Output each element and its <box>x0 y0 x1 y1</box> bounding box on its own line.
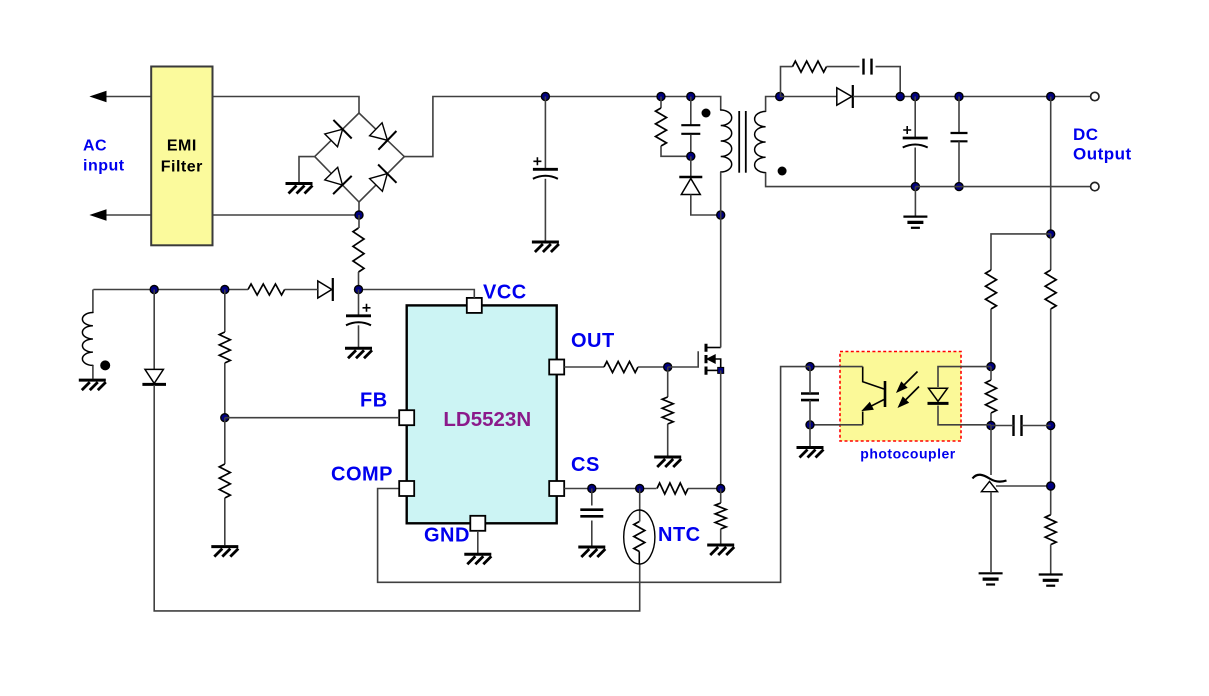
wire bottom rail to terminal <box>915 186 1090 188</box>
wire divider lower <box>224 418 226 464</box>
wire gate pulldown top <box>667 367 669 397</box>
junction snubber R top <box>657 93 665 101</box>
svg-text:VCC: VCC <box>483 282 527 304</box>
wire FB node to pin <box>225 417 399 419</box>
capacitor C3 (output snubber) <box>864 59 872 75</box>
pin FB <box>399 410 414 425</box>
MOSFET Q1 <box>706 344 721 375</box>
wire EMI to bridge bottom node <box>213 214 360 216</box>
wire aux top <box>92 290 94 313</box>
IC U1 LD5523N body <box>407 305 557 523</box>
polarity dot aux <box>100 360 110 370</box>
ground CS cap <box>578 547 605 557</box>
resistor R9 (FB upper) <box>219 332 230 363</box>
junction NTC top <box>636 485 644 493</box>
junction comp bottom <box>806 421 814 429</box>
photocoupler LED <box>928 388 949 403</box>
wire right chain vertical <box>1050 234 1052 270</box>
resistor R3 (output snubber) <box>793 61 827 72</box>
wire comp feedback long <box>378 367 810 583</box>
wire primary bottom <box>720 172 722 215</box>
wire bridge right vertex to top rail <box>404 97 545 157</box>
svg-text:OUT: OUT <box>571 330 615 352</box>
arrowhead AC line 2 <box>91 210 106 220</box>
wire CS pin row <box>564 488 656 490</box>
pin VCC <box>467 298 482 313</box>
junction aux diode <box>150 286 158 294</box>
wire gate node to MOSFET <box>668 351 699 367</box>
capacitor C9 (CS filter) <box>580 510 603 517</box>
photocoupler transistor <box>863 367 886 425</box>
wire AC line 1 (top) <box>105 96 151 98</box>
wire aux to ground <box>92 365 94 378</box>
transformer core <box>739 111 746 173</box>
ground aux winding <box>79 380 106 390</box>
svg-text:LD5523N: LD5523N <box>443 408 531 431</box>
wire LED top <box>938 367 991 387</box>
junction snubber return <box>896 93 904 101</box>
junction LED anode <box>987 363 995 371</box>
svg-text:AC: AC <box>83 137 107 154</box>
junction CS cap <box>588 485 596 493</box>
svg-text:Output: Output <box>1073 145 1132 164</box>
wire phototransistor collector <box>810 366 863 368</box>
resistor R12 (gate pulldown) <box>662 397 673 424</box>
ground FB divider <box>211 547 238 557</box>
resistor R10 (FB lower) <box>219 464 230 498</box>
wire VCC cap top <box>358 290 360 316</box>
svg-text:input: input <box>83 157 125 174</box>
wire C7 bottom <box>809 400 811 425</box>
wire bridge bottom to AC line <box>358 202 360 215</box>
pin CS <box>549 481 564 496</box>
junction comp top <box>806 363 814 371</box>
pin OUT <box>549 360 564 375</box>
ground gate pulldown <box>654 457 681 467</box>
wire VCC cap ground stub <box>358 325 360 347</box>
wire R10 to ground <box>224 498 226 545</box>
polarity dot secondary <box>778 167 787 176</box>
wire cathode node down <box>990 426 992 476</box>
wire phototransistor emitter <box>810 424 863 426</box>
wire shunt to ground <box>990 492 992 572</box>
wire R3 to C3 <box>827 66 860 68</box>
junction bridge bottom / AC2 <box>355 211 363 219</box>
wire clamp diode to drain node <box>691 195 721 216</box>
diode D4 (bridge lower-right) <box>370 165 397 192</box>
junction bulk cap <box>541 93 549 101</box>
transformer secondary winding <box>755 111 766 172</box>
polarity dot primary <box>702 109 711 118</box>
svg-text:GND: GND <box>424 525 470 547</box>
resistor R4 (upper divider left) <box>986 270 997 309</box>
wire secondary top <box>766 97 780 112</box>
diode D7 (VCC charge) <box>318 278 333 301</box>
junction snubber mid <box>687 152 695 160</box>
wire source resistor top <box>720 489 722 504</box>
wire top rail to transformer primary <box>545 97 720 111</box>
svg-text:photocoupler: photocoupler <box>860 446 955 462</box>
wire bridge diamond edges <box>315 113 405 202</box>
wire R14 to ground <box>720 529 722 544</box>
wire R8 to D7 <box>285 289 318 291</box>
svg-text:NTC: NTC <box>658 524 701 546</box>
resistor R11 (gate) <box>604 362 638 373</box>
EMI filter block <box>151 67 212 246</box>
wire snubber R bottom <box>661 146 691 156</box>
wire C7 ground stub <box>809 425 811 446</box>
transformer primary winding <box>721 110 732 172</box>
capacitor C5 (output ceramic) <box>951 133 968 141</box>
wire secondary bottom <box>766 173 916 187</box>
wire divider mid <box>224 363 226 418</box>
resistor R13 (CS sense series) <box>657 483 688 494</box>
pin GND <box>470 516 485 531</box>
junction comp cap right <box>1047 422 1055 430</box>
svg-text:DC: DC <box>1073 125 1099 144</box>
wire bulk cap to ground <box>544 179 546 241</box>
wire R11 to gate node <box>638 366 668 368</box>
wire R5 ends <box>990 367 992 380</box>
resistor R1 (startup) <box>353 228 364 272</box>
wire AC line 2 (bottom) <box>105 214 151 216</box>
wire LED bottom <box>938 406 991 425</box>
wire CS cap bottom <box>591 521 593 546</box>
diode D2 (bridge upper-right) <box>370 123 397 150</box>
wire snubber C top <box>690 97 692 125</box>
wire R5 to cathode node <box>990 413 992 426</box>
wire GND pin to ground <box>477 531 479 553</box>
junction output cap bottom <box>911 183 919 191</box>
junction C5 bottom <box>955 183 963 191</box>
terminal DC+ <box>1091 92 1099 100</box>
junction LED cathode <box>987 422 995 430</box>
junction snubber C top <box>687 93 695 101</box>
wire EMI to bridge top <box>213 97 360 114</box>
photocoupler block <box>840 352 961 442</box>
wire source down <box>720 370 722 488</box>
wire D8 down to bottom line <box>154 385 640 611</box>
wire R12 to ground <box>667 424 669 456</box>
wire sec snubber up <box>781 67 793 97</box>
svg-text:Filter: Filter <box>161 158 203 175</box>
junction output cap top <box>911 93 919 101</box>
junction C5 top <box>955 93 963 101</box>
wire R13 to source node <box>688 488 721 490</box>
resistor R8 (VCC series) <box>248 284 285 295</box>
wire snubber to clamp diode <box>690 156 692 177</box>
capacitor C2 (snubber) <box>681 125 700 134</box>
ground bridge left <box>286 184 313 194</box>
wire secondary to output diode <box>780 96 837 98</box>
wire bridge left vertex to ground <box>299 157 315 182</box>
diode D5 (clamp) <box>679 177 702 195</box>
wire R6 down <box>1050 309 1052 515</box>
capacitor C7 (comp) <box>801 394 819 401</box>
wire C5 top <box>958 97 960 134</box>
ground source resistor <box>707 545 734 555</box>
ground IC <box>464 554 491 564</box>
wire NTC top <box>639 489 641 522</box>
capacitor C8 (VCC) <box>346 304 371 326</box>
junction ref node <box>1047 482 1055 490</box>
wire sense to left branch <box>991 234 1051 270</box>
svg-text:COMP: COMP <box>331 464 393 486</box>
resistor R7 (lower divider) <box>1045 515 1056 545</box>
auxiliary winding <box>82 313 93 366</box>
svg-text:FB: FB <box>360 390 388 412</box>
ground VCC cap <box>345 348 372 358</box>
junction sense split <box>1047 230 1055 238</box>
zener/shunt regulator U2 <box>973 475 1007 492</box>
ground comp cap <box>797 448 824 458</box>
wire R1 to VCC node <box>358 272 360 290</box>
junction MOSFET source <box>718 367 724 373</box>
junction secondary top <box>776 93 784 101</box>
wire VCC pin to rail <box>359 290 475 298</box>
capacitor C6 (feedback) <box>1014 415 1022 436</box>
ground bulk cap <box>532 242 559 252</box>
wire snubber C bottom <box>690 135 692 157</box>
junction FB divider top <box>221 286 229 294</box>
wire bridge bottom to R1 <box>358 215 360 228</box>
wire C6 left <box>991 425 1014 427</box>
wire bulk cap top <box>544 97 546 170</box>
diode D6 (output rectifier) <box>837 85 853 108</box>
arrowhead AC line 1 <box>91 92 106 102</box>
wire C7 top <box>809 367 811 394</box>
ground divider <box>1039 575 1063 586</box>
wire C6 right <box>1022 425 1051 427</box>
wire output cap bottom <box>914 148 916 187</box>
wire output cap top <box>914 97 916 139</box>
junction VCC cap <box>355 286 363 294</box>
junction gate node <box>664 363 672 371</box>
diode D8 (restart sense) <box>142 369 166 384</box>
terminal DC- <box>1091 182 1099 190</box>
junction sense tap <box>1047 93 1055 101</box>
wire OUT pin to R11 <box>564 366 604 368</box>
wire aux rail <box>93 289 248 291</box>
wire C5 bottom <box>958 141 960 186</box>
resistor R5 (bias) <box>986 380 997 413</box>
junction source sense <box>717 485 725 493</box>
wire output diode to rail <box>853 96 1091 98</box>
resistor R14 (current sense) <box>715 503 726 529</box>
ground shunt <box>979 573 1003 584</box>
wire divider upper <box>224 290 226 333</box>
diode D3 (bridge lower-left) <box>325 167 352 194</box>
svg-text:EMI: EMI <box>167 137 197 154</box>
wire sense vertical <box>1050 97 1052 234</box>
capacitor C1 (bulk electrolytic) <box>533 157 558 179</box>
resistor R6 (upper divider right) <box>1045 270 1056 309</box>
capacitor C4 (output electrolytic) <box>903 126 928 148</box>
wire CS cap top <box>591 489 593 506</box>
resistor R2 (snubber) <box>656 108 667 146</box>
pin COMP <box>399 481 414 496</box>
junction drain node <box>717 211 725 219</box>
wire output cap ground stub <box>914 187 916 216</box>
wire shunt ref to right chain <box>996 485 1051 487</box>
wire R7 to ground <box>1050 545 1052 574</box>
wire C3 to rail <box>876 67 901 97</box>
wire aux diode top <box>153 290 155 370</box>
wire drain to transformer <box>720 215 722 348</box>
svg-text:CS: CS <box>571 454 600 476</box>
wire snubber R top <box>660 97 662 109</box>
thermistor NTC <box>624 510 655 564</box>
diode D1 (bridge upper-left) <box>325 120 352 147</box>
wire R4 to LED node <box>990 309 992 367</box>
junction FB node <box>221 414 229 422</box>
ground output <box>903 217 927 228</box>
light arrows <box>897 372 919 408</box>
